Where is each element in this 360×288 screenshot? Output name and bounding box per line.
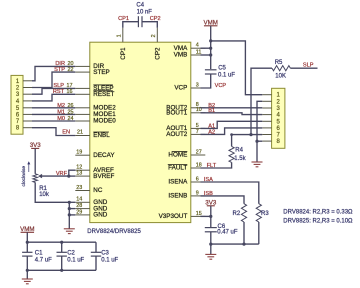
- svg-text:GND: GND: [93, 212, 107, 219]
- pin 20 DIR stub: [75, 65, 90, 67]
- svg-text:CP1: CP1: [118, 16, 129, 22]
- svg-text:6: 6: [196, 176, 199, 182]
- resistor R4: [229, 146, 234, 162]
- svg-text:ISB: ISB: [204, 191, 213, 197]
- wire V3P3OUT pin15: [201, 215, 211, 217]
- connector J1 8-pin header (left): [11, 75, 23, 134]
- wire M0 net: [32, 120, 75, 122]
- capacitor C4: [137, 16, 139, 27]
- capacitor C2: [61, 242, 63, 252]
- junction pin15 3V3: [209, 215, 212, 218]
- svg-text:C2: C2: [67, 251, 75, 257]
- pin 12 AVREF stub: [75, 169, 90, 171]
- junction GND28: [68, 207, 71, 210]
- connector J2 8-pin header (right): [272, 88, 285, 148]
- connector J2 pin 4 stub: [262, 114, 271, 116]
- wire RST net: [32, 94, 75, 101]
- pin 14 GND stub: [75, 201, 90, 203]
- svg-text:3: 3: [196, 82, 199, 88]
- svg-text:B1: B1: [208, 108, 215, 114]
- svg-text:1: 1: [117, 34, 123, 37]
- svg-text:C3: C3: [101, 251, 109, 257]
- pin 9 ISENB stub: [191, 195, 206, 197]
- connector J2 pin 2 stub: [262, 100, 271, 102]
- connector J1 pin 6 stub: [23, 113, 32, 115]
- junction R4 top: [230, 133, 233, 136]
- svg-text:4: 4: [196, 43, 199, 49]
- pin 6 ISENA stub: [191, 181, 206, 183]
- wire EN net: [32, 128, 75, 136]
- svg-text:VMB: VMB: [174, 52, 188, 59]
- capacitor C6: [205, 227, 217, 229]
- junction R2 bottom: [242, 243, 245, 246]
- junction C2 bottom: [60, 269, 63, 272]
- pin 19 DECAY stub: [75, 154, 90, 156]
- svg-text:4.7 uF: 4.7 uF: [35, 257, 52, 263]
- svg-text:10K: 10K: [275, 74, 286, 80]
- wire ISB net: [201, 196, 245, 204]
- svg-text:DRV8825: R2,R3 = 0.10Ω: DRV8825: R2,R3 = 0.10Ω: [283, 219, 353, 225]
- wire GND pin29 row: [69, 214, 75, 216]
- svg-text:0.1 uF: 0.1 uF: [218, 73, 235, 79]
- note clockwise arrow: [28, 163, 30, 172]
- wire SLP net: [32, 88, 75, 94]
- svg-text:BOUT1: BOUT1: [166, 110, 187, 117]
- svg-text:25: 25: [68, 109, 74, 115]
- wire top rail: [27, 241, 96, 243]
- wire DIR net: [32, 66, 75, 80]
- svg-text:24: 24: [68, 116, 74, 122]
- wire BVREF: [69, 175, 76, 177]
- ground (IC GND pins): [64, 228, 75, 230]
- wire C6 bottom to rail: [210, 232, 212, 244]
- wire rail to ground: [210, 244, 212, 254]
- op-amp U1 DRV8824/DRV8825 driver IC body: [90, 42, 191, 222]
- capacitor C1: [26, 242, 28, 252]
- wire STP net: [32, 72, 75, 87]
- wire R2 bottom: [243, 222, 245, 244]
- svg-text:C1: C1: [35, 251, 43, 257]
- svg-text:EN: EN: [62, 130, 70, 136]
- wire GND pin28 row: [69, 208, 75, 210]
- wire GND pin14 row: [69, 201, 75, 203]
- wire FLT from pin18: [201, 162, 232, 168]
- svg-text:C5: C5: [218, 66, 226, 72]
- connector J2 pin 7 stub: [262, 134, 271, 136]
- connector J1 pin 8 stub: [23, 127, 32, 129]
- wire bottom-right GND rail: [211, 243, 259, 245]
- svg-text:10k: 10k: [39, 192, 50, 198]
- wire ISA net: [201, 182, 259, 204]
- svg-text:CP2: CP2: [154, 47, 161, 60]
- svg-text:ISA: ISA: [204, 177, 213, 183]
- wire VMM vertical to C5: [210, 26, 212, 69]
- svg-text:clockwise: clockwise: [21, 166, 27, 187]
- wire GND vertical: [68, 202, 70, 229]
- svg-text:R4: R4: [235, 147, 243, 153]
- potentiometer R1 body: [33, 174, 38, 183]
- junction GND29: [68, 213, 71, 216]
- wire M2 net: [32, 107, 75, 109]
- wiper arrow R1: [38, 174, 42, 178]
- ground (bottom left): [22, 278, 33, 280]
- wire M1 net: [32, 113, 75, 115]
- svg-text:29: 29: [76, 209, 82, 215]
- svg-text:DRV8824: R2,R3 = 0.33Ω: DRV8824: R2,R3 = 0.33Ω: [283, 209, 353, 215]
- svg-text:A2: A2: [208, 130, 215, 136]
- wire AVREF jog: [69, 170, 76, 176]
- pin 27 HOME stub: [191, 154, 206, 156]
- pin 24 MODE0 stub: [75, 120, 90, 122]
- svg-text:CP2: CP2: [150, 16, 161, 22]
- svg-text:MODE0: MODE0: [93, 118, 116, 125]
- wire VMB pin11: [201, 54, 211, 56]
- svg-text:M1: M1: [57, 109, 65, 115]
- svg-text:STEP: STEP: [93, 69, 109, 76]
- svg-text:ENBL: ENBL: [93, 132, 110, 139]
- wire 3V3 to R1 top: [34, 148, 36, 173]
- junction VMM branch: [209, 39, 212, 42]
- svg-text:ISENA: ISENA: [168, 179, 188, 186]
- pin 16 RESET stub: [75, 93, 90, 95]
- wire VMA pin4: [201, 47, 211, 49]
- svg-text:R3: R3: [261, 211, 269, 217]
- svg-text:BVREF: BVREF: [93, 173, 114, 180]
- wire GND drop: [256, 141, 258, 162]
- svg-text:27: 27: [196, 149, 202, 155]
- connector J1 pin 2 stub: [23, 87, 32, 89]
- svg-text:26: 26: [68, 103, 74, 109]
- svg-text:RESET: RESET: [93, 91, 114, 98]
- connector J2 pin 6 stub: [262, 127, 271, 129]
- junction VMB: [209, 53, 212, 56]
- svg-text:DECAY: DECAY: [93, 152, 115, 159]
- wire A1 net: [201, 121, 263, 128]
- wire rail to ground (bottom left): [26, 270, 28, 279]
- ground (bottom right): [205, 253, 216, 255]
- junction VMM rail: [26, 241, 29, 244]
- wire connector pin2 GND: [257, 101, 262, 141]
- ground (right header): [252, 161, 263, 163]
- wire VMM to top rail: [26, 232, 28, 242]
- svg-text:0.47 uF: 0.47 uF: [217, 230, 238, 236]
- wire R1 bottom to GND row: [35, 182, 69, 202]
- svg-text:M2: M2: [57, 103, 65, 109]
- wire R4 top to connector pin7: [232, 135, 263, 147]
- svg-text:NC: NC: [93, 187, 103, 194]
- connector J2 pin 5 stub: [262, 120, 271, 122]
- svg-text:13: 13: [76, 171, 82, 177]
- svg-text:16: 16: [67, 89, 73, 95]
- junction C2 top: [60, 241, 63, 244]
- wire VMM branch to connector pin1: [211, 41, 263, 95]
- connector J2 pin 1 stub: [262, 94, 271, 96]
- wire C5 to VCP: [201, 74, 211, 88]
- pin 11 VMB stub: [191, 54, 206, 56]
- pin 4 VMA stub: [191, 47, 206, 49]
- junction FLT-R5: [249, 133, 252, 136]
- resistor R5: [272, 66, 290, 71]
- svg-text:ISENB: ISENB: [168, 193, 187, 200]
- pin 2 CP2 stub: [156, 28, 158, 43]
- svg-text:2: 2: [151, 34, 157, 37]
- svg-text:14: 14: [76, 197, 82, 203]
- svg-text:9: 9: [196, 190, 199, 196]
- wire bottom rail: [27, 269, 96, 271]
- wire A2 net: [201, 128, 263, 134]
- pin 22 STEP stub: [75, 71, 90, 73]
- svg-text:VCP: VCP: [215, 83, 227, 89]
- connector J2 pin 8 stub: [262, 140, 271, 142]
- pin 10 BOUT1 stub: [191, 112, 206, 114]
- svg-text:V3P3OUT: V3P3OUT: [159, 213, 188, 220]
- wire B1 net: [201, 113, 263, 115]
- pin 28 GND stub: [75, 208, 90, 210]
- pin 7 AOUT2 stub: [191, 133, 206, 135]
- wire R3 bottom: [258, 222, 260, 244]
- svg-text:FAULT: FAULT: [168, 165, 187, 172]
- svg-text:0.1 uF: 0.1 uF: [101, 257, 118, 263]
- pin 15 V3P3OUT stub: [191, 215, 206, 217]
- pin 3 VCP stub: [191, 87, 206, 89]
- svg-text:1.5k: 1.5k: [234, 156, 246, 162]
- pin 25 MODE1 stub: [75, 113, 90, 115]
- svg-text:CP1: CP1: [120, 47, 127, 60]
- pin 29 GND stub: [75, 214, 90, 216]
- wire C4 to CP2: [142, 22, 157, 28]
- resistor R3: [256, 204, 261, 222]
- junction GND14: [68, 201, 71, 204]
- svg-text:23: 23: [76, 185, 82, 191]
- pin 23 NC stub: [75, 190, 90, 192]
- junction C6 rail: [209, 243, 212, 246]
- svg-text:FLT: FLT: [207, 163, 217, 169]
- svg-text:7: 7: [196, 129, 199, 135]
- wire 3V3 to pin15 junction: [210, 206, 212, 228]
- svg-text:22: 22: [68, 67, 74, 73]
- svg-text:M0: M0: [57, 116, 65, 122]
- pin 17 SLEEP stub: [75, 87, 90, 89]
- pin 21 ENBL stub: [75, 135, 90, 137]
- pin 8 BOUT2 stub: [191, 107, 206, 109]
- svg-text:SLP: SLP: [303, 62, 314, 68]
- svg-text:C4: C4: [136, 2, 144, 8]
- resistor R2: [241, 204, 246, 222]
- connector J1 pin 5 stub: [23, 107, 32, 109]
- svg-text:STP: STP: [54, 67, 65, 73]
- svg-text:DRV8824/DRV8825: DRV8824/DRV8825: [87, 229, 141, 235]
- wire B2 net: [201, 107, 263, 109]
- pin 26 MODE2 stub: [75, 107, 90, 109]
- connector J1 pin 7 stub: [23, 120, 32, 122]
- svg-text:10 nF: 10 nF: [137, 10, 153, 16]
- svg-text:RST: RST: [53, 89, 65, 95]
- svg-text:HOME: HOME: [168, 152, 187, 159]
- junction pin8 GND: [255, 140, 258, 143]
- svg-text:28: 28: [76, 203, 82, 209]
- svg-text:AOUT2: AOUT2: [166, 131, 187, 138]
- connector J1 pin 4 stub: [23, 100, 32, 102]
- svg-text:VCP: VCP: [174, 85, 187, 92]
- wire connector pin8 GND: [257, 140, 262, 142]
- pin 13 BVREF stub: [75, 175, 90, 177]
- svg-text:VRF: VRF: [56, 171, 68, 177]
- junction C1 bottom: [26, 269, 29, 272]
- junction VMA: [209, 47, 212, 50]
- svg-text:21: 21: [77, 130, 83, 136]
- capacitor C3: [95, 242, 97, 252]
- junction VREF: [67, 175, 70, 178]
- svg-text:R5: R5: [275, 60, 283, 66]
- connector J1 pin 3 stub: [23, 93, 32, 95]
- pin 1 CP1 stub: [122, 28, 124, 43]
- wire CP1 to C4: [123, 22, 139, 28]
- wire R5 riser: [251, 68, 272, 134]
- wire SLP out: [290, 67, 317, 69]
- svg-text:19: 19: [76, 150, 82, 156]
- pin 5 AOUT1 stub: [191, 127, 206, 129]
- connector J2 pin 3 stub: [262, 107, 271, 109]
- connector J1 pin 1 stub: [23, 80, 32, 82]
- wire wiper to VREF junction: [42, 175, 69, 177]
- pin 18 FAULT stub: [191, 167, 206, 169]
- svg-text:R2: R2: [233, 211, 241, 217]
- capacitor C5: [205, 69, 217, 71]
- svg-text:0.1 uF: 0.1 uF: [67, 257, 84, 263]
